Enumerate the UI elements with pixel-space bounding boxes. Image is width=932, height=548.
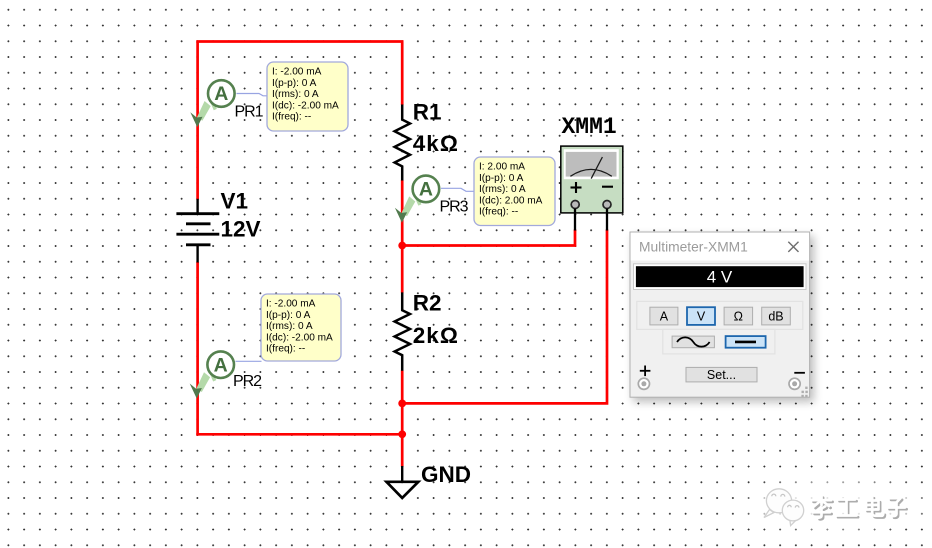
multimeter XMM1 icon (561, 146, 623, 230)
wire: left vertical, top wire down to battery V1 (196, 42, 199, 200)
button V (selected) (687, 307, 715, 325)
svg-text:I: 2.00 mA: I: 2.00 mA (479, 162, 525, 173)
readout box PR3 (474, 157, 555, 226)
close button X (788, 242, 798, 252)
svg-text:2kΩ: 2kΩ (413, 323, 459, 348)
resistor R1 (395, 105, 410, 181)
svg-text:PR2: PR2 (233, 373, 262, 390)
- pin lead (606, 209, 608, 231)
meter needle (591, 157, 602, 179)
svg-text:Multimeter-XMM1: Multimeter-XMM1 (639, 240, 748, 255)
junction B (R2 bottom / multimeter-) (398, 400, 406, 408)
wire: bottom horizontal from V1 branch to GND junction (196, 433, 402, 436)
panel + terminal label (640, 366, 651, 377)
junction A (R1/R2/multimeter+) (398, 242, 406, 250)
button dB (762, 307, 791, 325)
svg-text:XMM1: XMM1 (562, 114, 617, 140)
svg-text:GND: GND (421, 462, 471, 487)
wire: right vertical, top wire down to R1 (401, 42, 404, 106)
svg-text:I(rms): 0 A: I(rms): 0 A (266, 321, 313, 332)
resize grip (801, 387, 807, 398)
svg-text:4kΩ: 4kΩ (413, 131, 459, 156)
svg-text:I: -2.00 mA: I: -2.00 mA (272, 67, 322, 78)
minus marking (602, 186, 613, 188)
probe PR3 (395, 176, 439, 223)
- terminal pin (603, 201, 611, 209)
svg-text:I(rms): 0 A: I(rms): 0 A (272, 89, 319, 100)
wire: R1 bottom to R2 top (through junction A) (401, 180, 404, 293)
svg-text:R1: R1 (413, 99, 442, 124)
mode buttons group frame (637, 301, 803, 329)
leader line PR1 to readout box (237, 94, 268, 96)
wire: left vertical, battery V1 down to bottom wire (196, 262, 199, 436)
DC (flat) button (selected) (726, 336, 766, 348)
svg-text:dB: dB (768, 310, 783, 324)
svg-text:Set...: Set... (707, 368, 736, 382)
meter needle arc (570, 169, 611, 176)
AC (sine) button (672, 336, 714, 348)
svg-text:I(rms): 0 A: I(rms): 0 A (479, 184, 526, 195)
junction C (bottom wire / GND branch) (398, 430, 406, 438)
svg-text:I(dc): -2.00 mA: I(dc): -2.00 mA (266, 332, 333, 343)
readout box PR2 (261, 294, 341, 361)
svg-text:I(freq): --: I(freq): -- (266, 344, 305, 355)
ground symbol (387, 466, 419, 498)
multimeter panel Multimeter-XMM1 (630, 232, 810, 397)
panel + terminal jack (638, 378, 649, 389)
plus marking (571, 186, 582, 188)
svg-text:A: A (660, 310, 669, 324)
button A (650, 307, 678, 325)
svg-text:12V: 12V (221, 217, 261, 242)
leader line PR2 to readout box (236, 360, 262, 362)
panel - terminal label (794, 372, 805, 374)
wire: multimeter - terminal down and left to junction B (402, 230, 607, 404)
wire: multimeter + terminal down and left to junction A (402, 230, 575, 246)
Set... button (686, 367, 757, 382)
svg-text:I(p-p): 0 A: I(p-p): 0 A (266, 310, 311, 321)
wire: R2 bottom down to GND symbol (401, 370, 404, 466)
svg-text:I(freq): --: I(freq): -- (479, 207, 518, 218)
probe PR1 (190, 80, 234, 127)
svg-text:I: -2.00 mA: I: -2.00 mA (266, 299, 316, 310)
+ terminal pin (571, 201, 579, 209)
svg-text:Ω: Ω (734, 310, 743, 324)
svg-text:PR3: PR3 (440, 199, 469, 216)
svg-text:V1: V1 (221, 189, 249, 214)
wire: top horizontal from V1 branch to R1 branch (196, 40, 403, 43)
leader line PR3 to readout box (441, 188, 474, 191)
watermark glow backdrop (748, 481, 924, 529)
svg-text:I(p-p): 0 A: I(p-p): 0 A (479, 173, 524, 184)
battery V1 symbol (176, 199, 219, 263)
resistor R2 (395, 292, 410, 370)
svg-text:I(dc): 2.00 mA: I(dc): 2.00 mA (479, 195, 543, 206)
voltage display (634, 264, 807, 290)
svg-text:I(dc): -2.00 mA: I(dc): -2.00 mA (272, 100, 339, 111)
button Ω (724, 307, 753, 325)
svg-text:4 V: 4 V (707, 268, 733, 287)
signal mode group frame (663, 329, 775, 354)
svg-text:I(freq): --: I(freq): -- (272, 112, 311, 123)
svg-text:PR1: PR1 (235, 104, 264, 121)
svg-text:R2: R2 (413, 291, 442, 316)
readout box PR1 (267, 62, 348, 131)
panel - terminal jack (789, 378, 800, 389)
svg-text:I(p-p): 0 A: I(p-p): 0 A (272, 78, 317, 89)
multimeter panel shadow (633, 236, 814, 402)
+ pin lead (574, 209, 576, 231)
svg-text:V: V (697, 310, 706, 324)
panel title bar (631, 233, 810, 261)
watermark logo (chat bubbles) (764, 489, 804, 526)
probe PR2 (190, 351, 234, 398)
watermark text 李工电子 (812, 496, 907, 519)
